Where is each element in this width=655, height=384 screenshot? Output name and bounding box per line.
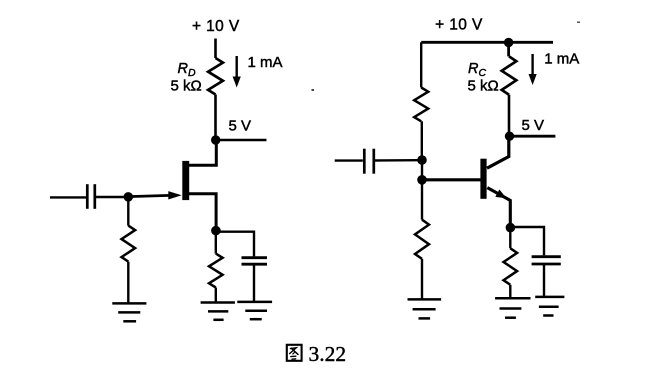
svg-text:5 V: 5 V <box>522 117 545 134</box>
resistor RG gate bias <box>122 226 136 262</box>
wire emitter lead with arrow <box>487 188 510 228</box>
node supply rail <box>504 38 513 47</box>
wire between nodes <box>421 160 423 180</box>
svg-text:5 V: 5 V <box>229 118 252 135</box>
resistor R2 lower bias <box>415 220 429 259</box>
ground source resistor <box>201 303 235 320</box>
resistor RC <box>502 56 517 94</box>
wire rail down left branch <box>420 42 422 87</box>
capacitor CS bypass (left) <box>242 256 268 259</box>
caption figure 3.22 glyph tu (drawn) <box>287 345 302 361</box>
wire R1 to base node <box>421 121 423 160</box>
current arrow 1 mA (right) <box>531 54 533 76</box>
wire 5V output (right) <box>510 135 556 138</box>
wire R2 to ground <box>421 259 423 300</box>
ground lower bias resistor <box>408 299 442 318</box>
wire drain lead <box>189 140 217 165</box>
node gate (left) <box>124 192 134 202</box>
resistor RD <box>208 58 223 95</box>
svg-text:RC: RC <box>468 61 486 79</box>
svg-text:+ 10 V: + 10 V <box>192 18 240 35</box>
node emitter <box>506 223 516 233</box>
resistor RE emitter <box>504 248 518 284</box>
ground bypass cap (left) <box>237 302 272 319</box>
wire gate lead with arrow <box>128 195 170 196</box>
svg-text:5 kΩ: 5 kΩ <box>468 78 499 95</box>
wire emitter node down <box>509 228 511 249</box>
node 5V output (right) <box>505 132 514 141</box>
wire input (left) <box>50 196 86 198</box>
wire rail node to RC <box>507 43 510 57</box>
transistor Q1 JFET channel bar <box>182 161 189 200</box>
node 5V output (left) <box>211 135 220 144</box>
wire RC to 5V node <box>508 95 511 137</box>
capacitor C2 input coupling (right) <box>363 149 366 174</box>
svg-text:5 kΩ: 5 kΩ <box>171 78 202 95</box>
wire CS to ground <box>253 264 255 302</box>
wire collector lead <box>487 136 509 168</box>
wire top supply rail (right) <box>421 41 553 44</box>
wire source node down <box>215 231 217 254</box>
wire cap to gate node <box>95 196 125 198</box>
wire base lead <box>422 178 481 181</box>
capacitor CE bypass (right) <box>532 255 561 258</box>
wire CE to ground <box>543 264 545 297</box>
svg-text:1 mA: 1 mA <box>544 51 579 68</box>
current arrow 1 mA (left) <box>235 56 237 79</box>
wire source node to bypass cap <box>216 232 254 257</box>
wire input (right) <box>335 159 363 161</box>
node base <box>417 175 427 185</box>
wire gate node down <box>127 197 129 226</box>
node source (left) <box>211 226 221 236</box>
wire supply to RD top <box>214 39 217 59</box>
wire RS to ground <box>215 288 217 303</box>
wire 5V output (left) <box>216 139 267 142</box>
stray scan speck 2 <box>577 22 580 24</box>
svg-text:RD: RD <box>178 61 196 79</box>
wire RE to ground <box>509 285 511 299</box>
ground bypass cap (right) <box>535 297 564 316</box>
wire emitter node to bypass cap <box>510 227 544 255</box>
wire cap to input node <box>374 159 418 162</box>
wire source lead <box>189 194 217 231</box>
ground emitter resistor <box>495 298 530 317</box>
resistor R1 upper bias <box>414 88 428 122</box>
wire RD bottom to 5V node <box>214 95 217 141</box>
wire RG to ground <box>127 262 129 304</box>
capacitor C1 input coupling (left) <box>86 184 89 209</box>
node input (right) <box>417 155 427 165</box>
svg-text:3.22: 3.22 <box>309 342 347 366</box>
stray scan speck 1 <box>312 89 315 91</box>
svg-text:1 mA: 1 mA <box>248 54 283 71</box>
wire base node down <box>421 180 423 220</box>
svg-text:+ 10 V: + 10 V <box>435 17 483 34</box>
transistor Q2 BJT base bar <box>480 159 486 199</box>
resistor RS source <box>209 254 223 288</box>
ground gate resistor <box>112 303 146 321</box>
